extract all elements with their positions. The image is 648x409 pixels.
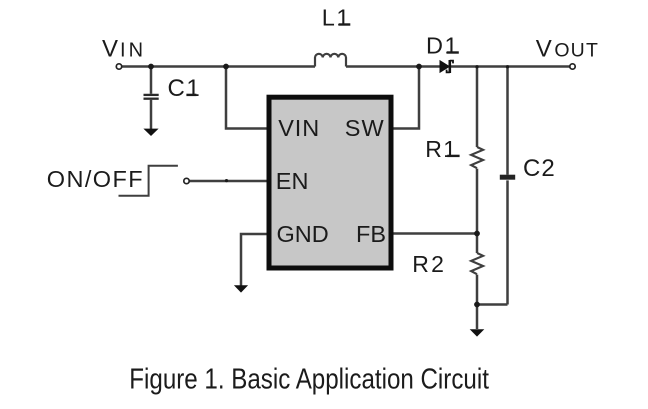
svg-text:C1: C1 bbox=[168, 75, 202, 102]
diode D1 bbox=[440, 60, 453, 73]
caption bbox=[129, 362, 489, 395]
svg-text:R1: R1 bbox=[425, 136, 457, 162]
junction EN wire tick bbox=[225, 179, 228, 182]
wire SW pin up to rail bbox=[394, 67, 420, 129]
junction R2 bottom node bbox=[474, 302, 480, 308]
svg-text:VOUT: VOUT bbox=[536, 36, 599, 63]
ON/OFF step symbol bbox=[119, 166, 178, 196]
svg-text:VIN: VIN bbox=[278, 115, 320, 141]
ground (R2 / C2) bbox=[470, 329, 485, 336]
svg-text:ON/OFF: ON/OFF bbox=[47, 166, 144, 192]
junction C1 tap bbox=[148, 64, 154, 70]
svg-text:C2: C2 bbox=[523, 155, 556, 182]
ground (GND pin) bbox=[234, 285, 248, 292]
wire C2 to bottom bbox=[506, 180, 509, 304]
wire bottom junction to ground bbox=[476, 305, 479, 330]
wire C1 to ground bbox=[150, 100, 153, 129]
junction VIN-pin tap bbox=[223, 64, 229, 70]
svg-text:L1: L1 bbox=[322, 5, 351, 31]
resistor R1 zigzag bbox=[471, 147, 483, 168]
wire R1 branch top bbox=[476, 67, 479, 148]
capacitor C2 plates bbox=[500, 175, 515, 180]
resistor R2 zigzag bbox=[471, 253, 483, 274]
svg-text:EN: EN bbox=[276, 168, 309, 194]
svg-text:D1: D1 bbox=[426, 33, 459, 59]
svg-text:GND: GND bbox=[277, 221, 329, 247]
wire EN bbox=[189, 180, 266, 183]
op-amp U1 (regulator IC body) bbox=[269, 97, 391, 268]
svg-text:FB: FB bbox=[356, 221, 386, 247]
svg-text:R2: R2 bbox=[412, 251, 446, 277]
wire FB pin bbox=[394, 232, 478, 235]
svg-text:Figure 1. Basic Application Ci: Figure 1. Basic Application Circuit bbox=[129, 362, 489, 395]
wire inductor to diode bbox=[346, 65, 440, 68]
junction C2 tap bbox=[506, 65, 509, 68]
wire diode to VOUT terminal bbox=[451, 65, 571, 68]
wire top rail left (VIN to inductor) bbox=[122, 65, 315, 68]
junction R1 tap bbox=[475, 65, 478, 68]
node: VOUT terminal bbox=[570, 64, 575, 69]
wire FB junction to R2 bbox=[476, 234, 479, 254]
inductor L1 bbox=[315, 54, 346, 67]
junction SW tap bbox=[416, 64, 422, 70]
wire GND pin to ground bbox=[241, 234, 267, 286]
ground (C1) bbox=[143, 129, 158, 136]
capacitor C1 plates bbox=[144, 95, 159, 99]
junction FB node bbox=[474, 231, 480, 237]
node: EN terminal bbox=[184, 178, 189, 183]
node: VIN terminal bbox=[116, 64, 121, 69]
svg-text:VIN: VIN bbox=[102, 35, 146, 62]
wire C2 branch top bbox=[506, 67, 509, 175]
wire bottom junction to C2 bottom bbox=[477, 303, 508, 306]
wire R1 to FB junction bbox=[476, 169, 479, 234]
wire R2 to bottom junction bbox=[476, 275, 479, 305]
wire VIN-pin branch bbox=[226, 67, 267, 129]
svg-text:SW: SW bbox=[345, 115, 385, 141]
wire C1 branch down bbox=[150, 67, 153, 94]
